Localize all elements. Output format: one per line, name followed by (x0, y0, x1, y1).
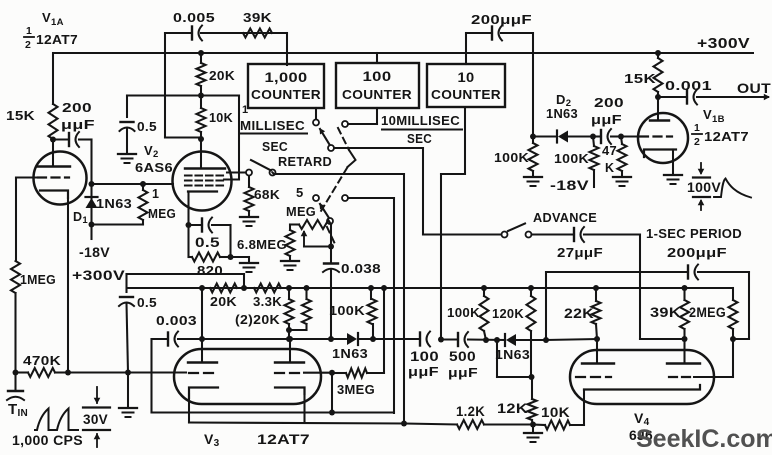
label 1 MILLISEC (240, 104, 307, 134)
V2 grid3 (185, 174, 227, 176)
svg-text:820: 820 (197, 263, 223, 278)
label 1,000 CPS (12, 433, 83, 448)
wire loop bottom to V2 plate (165, 136, 201, 138)
node 820 right (228, 254, 234, 260)
label 820 (197, 263, 223, 278)
label +300V (left) (72, 267, 125, 283)
label 200uuF (V1B) (591, 95, 624, 127)
wire out coupling (658, 96, 687, 98)
svg-text:470K: 470K (23, 353, 61, 368)
resistor 1MEG (V1A grid) (11, 261, 20, 293)
node (2)20K right top (304, 285, 310, 291)
label T IN (8, 401, 28, 419)
wire 47K node to V1B grid (621, 135, 638, 137)
diode 1N63 (bottom 2) (505, 334, 516, 346)
resistor 20K (V3 plate) (210, 284, 237, 293)
svg-text:27μμF: 27μμF (557, 245, 603, 260)
capacitor 100uuF (420, 332, 430, 347)
svg-text:3.3K: 3.3K (253, 294, 282, 309)
label 120K (492, 306, 524, 321)
label OUT (737, 81, 772, 96)
svg-text:200μμF: 200μμF (667, 245, 727, 260)
svg-text:15K: 15K (6, 108, 35, 123)
svg-text:1N63: 1N63 (96, 197, 132, 211)
label 22K (564, 306, 594, 321)
label 0.038 (341, 261, 381, 276)
capacitor 0.003 (152, 332, 203, 347)
resistor 1.2K (405, 420, 534, 429)
switch blade RETARD (251, 160, 271, 171)
label V2 (144, 143, 159, 160)
svg-text:6AS6: 6AS6 (135, 160, 173, 175)
resistor 12K (528, 377, 537, 425)
svg-text:0.5: 0.5 (137, 119, 157, 134)
svg-text:MEG: MEG (148, 207, 176, 221)
tube V2 envelope (173, 152, 232, 211)
node 47K top (618, 134, 624, 140)
resistor 100K (D2 left) (529, 137, 538, 177)
svg-text:3MEG: 3MEG (337, 382, 375, 397)
label 6J6 (629, 427, 653, 443)
resistor 100K (D2 right) (590, 137, 599, 188)
pot wiper arrow (301, 230, 308, 247)
node 200uuF leg (543, 337, 549, 343)
switch contact ADVANCE right (526, 232, 532, 238)
ground input bypass (119, 373, 137, 418)
ground V1B cathode (664, 175, 682, 184)
switch contact RETARD right (270, 170, 276, 176)
wire (2)20K bottoms (286, 327, 307, 339)
label 3MEG (337, 382, 375, 397)
wire box3 drop (441, 108, 465, 340)
svg-text:68K: 68K (254, 188, 280, 202)
svg-text:1: 1 (152, 187, 159, 201)
svg-text:100V: 100V (687, 180, 721, 195)
label 200uuF (counter) (471, 12, 532, 27)
V3 left plate (188, 361, 217, 363)
label 12K (497, 401, 528, 416)
wire screen bypass corner (127, 96, 201, 118)
node 100K-bottom junction (483, 337, 489, 343)
node V4 left grid / 12K (529, 374, 535, 380)
svg-text:SEC: SEC (407, 132, 432, 146)
ground 6.8MEG (281, 256, 299, 270)
node 0.5 cap ground tap (125, 370, 131, 376)
node V1A plate / 15K (50, 137, 56, 143)
wire -18V stub (left) (90, 225, 92, 240)
switch contact advance-row right (342, 195, 394, 201)
label (2)20K (235, 312, 280, 327)
svg-text:μμF: μμF (408, 364, 439, 379)
label 20K (divider) (209, 69, 235, 83)
label D2 (556, 92, 571, 109)
node 22K top (593, 285, 599, 291)
wire grid junction drop (329, 373, 335, 416)
label 6.8MEG (237, 238, 287, 252)
wire V3 cathode bus (189, 423, 405, 424)
capacitor input (T IN) (7, 373, 24, 401)
node 1MEG top (V2 grid) (140, 181, 146, 187)
label -18V (left) (79, 245, 110, 260)
wire wiper upper to advance line (334, 148, 423, 235)
switch contact RETARD left (246, 170, 252, 176)
wire +300V rail (127, 287, 734, 289)
diode D1 1N63 (86, 184, 98, 225)
wire +300V upper (127, 274, 245, 288)
wire caps to diode2 (468, 338, 505, 341)
svg-text:100K: 100K (329, 304, 365, 318)
diode D2 1N63 (557, 131, 568, 143)
label 200uuF (V1A) (61, 100, 95, 132)
node V2 cathode (186, 222, 192, 228)
svg-text:0.003: 0.003 (156, 313, 197, 328)
svg-text:100: 100 (363, 69, 392, 84)
resistor 6.8MEG (286, 225, 295, 256)
wire cap to 47K node (611, 135, 621, 137)
label 100K (D2 right) (554, 151, 589, 166)
svg-text:μμF: μμF (591, 112, 622, 127)
wire timing to diode (331, 338, 347, 340)
switch link dashed (321, 128, 356, 244)
svg-text:1.2K: 1.2K (456, 404, 485, 419)
node 20K top on rail (198, 50, 204, 56)
svg-text:100K: 100K (447, 305, 480, 320)
ground screen bypass (118, 128, 136, 163)
wire +300V bypass drop (125, 274, 127, 292)
resistor 470K (input) (16, 368, 69, 377)
resistor 3MEG (335, 369, 367, 378)
label 2MEG (689, 305, 726, 320)
svg-text:1N63: 1N63 (546, 107, 578, 121)
svg-text:ADVANCE: ADVANCE (533, 210, 597, 225)
resistor 120K (527, 285, 536, 377)
tube V1A envelope (34, 152, 87, 205)
svg-text:100: 100 (410, 349, 439, 364)
wire 0.003 left leg (152, 339, 395, 413)
wire RETARD to lower run (273, 173, 405, 175)
label V1A (42, 10, 64, 28)
svg-text:120K: 120K (492, 306, 524, 321)
resistor 1MEG (V2 grid leak) (139, 184, 148, 225)
label 0.003 (156, 313, 197, 328)
annotation 100V (687, 163, 721, 210)
resistor 820 (cathode) (189, 225, 231, 262)
wire 100K2 to cap (593, 135, 601, 137)
label 0.001 (665, 78, 712, 93)
svg-text:SeekIC.com: SeekIC.com (636, 425, 772, 453)
svg-text:12AT7: 12AT7 (704, 129, 749, 144)
box 1,000 COUNTER (248, 64, 324, 108)
wire 3MEG riser (367, 285, 387, 373)
svg-text:K: K (605, 161, 614, 175)
resistor 10K (divider bottom) (197, 96, 206, 140)
svg-text:0.5: 0.5 (195, 234, 220, 250)
wire D1 bottom to 1MEG (92, 223, 144, 225)
capacitor 0.038 (323, 247, 339, 340)
svg-text:10: 10 (458, 70, 475, 85)
V1A cathode (40, 191, 68, 199)
resistor 100K (bottom) (480, 285, 489, 340)
label 15K (V1A) (6, 108, 35, 123)
label 3.3K (253, 294, 282, 309)
resistor 3.3K (254, 284, 281, 293)
svg-text:MILLISEC: MILLISEC (240, 119, 305, 133)
wire 0.005/39K loop (165, 33, 287, 138)
svg-text:47: 47 (602, 144, 617, 158)
V1A plate (37, 140, 70, 167)
svg-text:COUNTER: COUNTER (342, 88, 412, 102)
ground V2 cathode (240, 257, 258, 272)
ground 68K (240, 211, 258, 226)
label 1/2 12AT7 (V1B) (692, 122, 749, 148)
svg-text:39K: 39K (243, 10, 272, 25)
wire 2MEG to right grid (694, 339, 733, 377)
annotation 30V arrows (83, 387, 110, 447)
label 1N63 (bottom2) (495, 348, 530, 362)
label 39K (top) (243, 10, 272, 25)
input waveform (35, 409, 78, 431)
label RETARD (278, 155, 332, 169)
V1B grid (640, 135, 672, 137)
svg-text:1: 1 (694, 122, 700, 134)
node divider mid (198, 93, 204, 99)
tube V3 envelope (174, 349, 321, 404)
wire 1MEG to input node (14, 293, 16, 373)
capacitor 200uuF (V1B grid) (601, 129, 611, 144)
node 100K2 top (590, 134, 596, 140)
wire V4 left plate (546, 336, 600, 363)
label 100K (D2 left) (494, 150, 529, 165)
svg-text:500: 500 (449, 349, 476, 364)
wire diode2 to plate node (515, 339, 546, 341)
wire screen feed (201, 96, 239, 180)
box 10 COUNTER (427, 64, 505, 107)
label 1-SEC PERIOD (646, 226, 742, 241)
svg-text:(2)20K: (2)20K (235, 312, 280, 327)
wire 1sec cap right leg (733, 272, 749, 339)
node 100K mid bottom (370, 336, 376, 342)
wire to V3 grid (128, 371, 186, 373)
wire to cathode ground (231, 256, 250, 258)
capacitor 0.5 (+300V bypass) (119, 297, 134, 306)
watermark SeekIC.com (636, 425, 772, 453)
switch blade ADVANCE (508, 224, 525, 232)
label 12AT7 (V3) (257, 431, 310, 447)
switch wiper upper (320, 128, 335, 151)
resistor 15K (V1A plate load) (49, 104, 58, 139)
resistor 22K (592, 288, 601, 339)
V3 left grid (189, 372, 218, 374)
V3 right cathode (275, 388, 305, 423)
svg-text:10MILLISEC: 10MILLISEC (381, 114, 460, 128)
wire cathode RC right leg (229, 225, 231, 257)
label 0.005 (173, 10, 215, 25)
wire V1A plate drop (52, 53, 54, 104)
label 470K (23, 353, 61, 368)
switch contact 5meg (313, 195, 319, 201)
node V3 left plate rail tap (199, 285, 205, 291)
box 100 COUNTER (336, 63, 419, 108)
label V1B (703, 107, 725, 125)
resistor 47K (618, 137, 627, 177)
svg-text:0.5: 0.5 (137, 295, 157, 310)
wire advance to cap (532, 233, 575, 235)
node V2 plate / 10K (198, 136, 204, 142)
wire OUT (697, 94, 770, 101)
label 500uuF (448, 349, 478, 380)
wire box2 top stub (376, 53, 378, 63)
wire V1A cathode drop (67, 198, 69, 373)
label 30V (83, 412, 108, 427)
wire D1 top to V2 grid (92, 183, 174, 185)
svg-text:COUNTER: COUNTER (431, 88, 501, 102)
ground 100K (D2 left) (524, 177, 542, 186)
resistor 10K (V4 cathode) (533, 421, 584, 430)
capacitor 0.5 (screen bypass) (120, 122, 135, 131)
resistor 2MEG (729, 288, 738, 339)
label 100K (bottom) (447, 305, 480, 320)
V2 cathode (188, 190, 217, 192)
switch contact sec (342, 108, 377, 127)
node 2MEG bottom (730, 336, 736, 342)
resistor 39K (top) (243, 29, 272, 38)
svg-text:1N63: 1N63 (495, 348, 530, 362)
node pot bottom (328, 244, 334, 250)
resistor 39K (V4) (680, 288, 689, 339)
node between caps (438, 337, 444, 343)
svg-text:2: 2 (25, 39, 31, 51)
node cathode/470K junction (65, 370, 71, 376)
svg-text:COUNTER: COUNTER (251, 88, 321, 102)
label 15K (V1B) (624, 71, 656, 86)
V4 left grid (576, 376, 611, 378)
node V3 right grid junction (329, 370, 335, 376)
switch contact ADVANCE left (502, 232, 508, 238)
V1B cathode (644, 150, 676, 175)
capacitor 0.5 (cathode) (189, 218, 231, 233)
label 1MEG (20, 272, 56, 287)
ground 47K (613, 177, 631, 186)
label 0.5 (cathode) (195, 234, 220, 250)
ground V4 cathode node (524, 425, 542, 443)
svg-text:100K: 100K (554, 151, 589, 166)
svg-text:2: 2 (694, 136, 700, 148)
label 0.5 (+300V) (137, 295, 157, 310)
svg-text:μμF: μμF (61, 117, 95, 132)
wire V1A grid drop (15, 178, 17, 262)
label SEC (10millisec) (407, 132, 432, 146)
V4 right grid (669, 376, 694, 378)
wire V4 left grid leg (494, 337, 532, 377)
capacitor 200uuF (counter) (492, 26, 502, 41)
wire advance feed (423, 233, 501, 235)
V4 right plate bar (667, 362, 700, 364)
label 0.5 (screen) (137, 119, 157, 134)
V3 right plate (275, 336, 304, 363)
svg-text:1: 1 (26, 25, 32, 37)
capacitor 27uuF (574, 227, 584, 242)
wire cap to D1 line (79, 140, 92, 185)
label 39K (V4) (650, 305, 681, 320)
label V3 (204, 431, 220, 449)
V1A grid (16, 176, 69, 178)
switch wiper lower (320, 203, 334, 224)
V1B plate (650, 97, 669, 121)
label 47K (602, 144, 617, 175)
svg-text:22K: 22K (564, 306, 594, 321)
wire V3 left plate riser (201, 288, 203, 362)
switch contact millisec (313, 108, 319, 126)
wire RETARD drop (403, 174, 405, 424)
svg-text:OUT: OUT (737, 81, 772, 96)
label 1N63 (V3) (332, 347, 368, 361)
label 1/2 12AT7 (V1A) (24, 25, 78, 51)
svg-text:1MEG: 1MEG (20, 272, 56, 287)
node 39K top (682, 285, 688, 291)
svg-text:20K: 20K (209, 69, 235, 83)
svg-text:0.005: 0.005 (173, 10, 215, 25)
V3 right grid (275, 372, 332, 374)
node D2 anode (530, 134, 536, 140)
label 1N63 (D2) (546, 107, 578, 121)
node 12K bottom ground (530, 422, 536, 428)
node 15K top (V1B) (655, 50, 661, 56)
wire top rail (V1A plate to +300V) (53, 52, 753, 54)
wire D2 to 100K2 (567, 135, 593, 137)
wire 27uuF to V4 right plate (584, 235, 685, 340)
label 6AS6 (135, 160, 173, 175)
svg-text:10K: 10K (541, 405, 570, 420)
node 20K/3.3K junction (241, 285, 247, 291)
wire bypass to ground node (127, 304, 129, 373)
tube V1B envelope (638, 113, 688, 163)
resistor (2)20K right (302, 288, 311, 330)
node (2)20K to timing line (286, 336, 292, 342)
label -18V (right) (550, 178, 589, 193)
annotation output pulse (714, 179, 751, 198)
node timing line / 0.038 (328, 336, 334, 342)
svg-text:2MEG: 2MEG (689, 305, 726, 320)
node V1B plate (655, 94, 661, 100)
svg-text:1,000: 1,000 (265, 70, 308, 85)
V2 grid2 (185, 179, 227, 181)
svg-text:MEG: MEG (286, 204, 316, 219)
svg-text:0.001: 0.001 (665, 78, 712, 93)
label 1.2K (456, 404, 485, 419)
label 10K (divider) (209, 111, 233, 125)
label 27uuF (557, 245, 603, 260)
svg-text:+300V: +300V (697, 36, 750, 52)
node input junction (13, 370, 19, 376)
wire V2 cathode drop (187, 192, 189, 226)
svg-text:200: 200 (594, 95, 624, 110)
node 0.003 junction (199, 336, 205, 342)
node V4 right plate (682, 336, 688, 363)
node cathode bus / retard line (401, 421, 407, 427)
svg-text:SEC: SEC (262, 140, 288, 154)
label 10MILLISEC (381, 114, 462, 130)
svg-text:-18V: -18V (79, 245, 110, 260)
label 100K (mid) (329, 304, 365, 318)
svg-text:12AT7: 12AT7 (36, 32, 78, 47)
node D1 bottom (89, 222, 95, 228)
label 68K (254, 188, 280, 202)
potentiometer 5 MEG (290, 220, 331, 229)
resistor 15K (V1B) (654, 53, 663, 97)
svg-text:30V: 30V (83, 412, 108, 427)
svg-text:1,000 CPS: 1,000 CPS (12, 433, 83, 448)
V2 grid1 (185, 184, 227, 186)
